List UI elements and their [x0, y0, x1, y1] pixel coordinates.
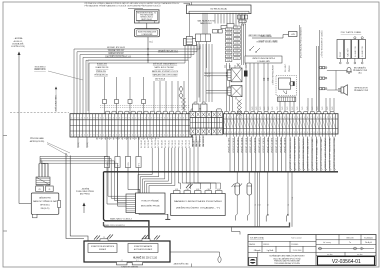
svg-text:SV 2 B-60: SV 2 B-60 [145, 140, 147, 148]
svg-text:6: 6 [151, 135, 152, 137]
svg-text:KABEL NTOL VO-N317-3: KABEL NTOL VO-N317-3 [104, 224, 125, 227]
svg-text:BD RELEJ (M) (B): BD RELEJ (M) (B) [211, 8, 228, 10]
svg-text:SV 5 B-44: SV 5 B-44 [182, 140, 184, 148]
svg-text:4 B2: 4 B2 [186, 189, 189, 191]
svg-text:7: 7 [90, 117, 91, 119]
hlavic cell right [128, 244, 158, 253]
connector box pins [185, 39, 187, 46]
wire pair right drop [316, 46, 318, 111]
svg-text:ANTÉNY(VODIČE): ANTÉNY(VODIČE) [30, 140, 45, 143]
leader privodni b [47, 144, 68, 156]
svg-text:POJI. TLAČÍTK. 1 PANEL: POJI. TLAČÍTK. 1 PANEL [341, 31, 362, 34]
svg-text:0: 0 [132, 135, 133, 137]
svg-text:SV 1 B-92: SV 1 B-92 [179, 140, 181, 148]
svg-text:21.10. 2000: 21.10. 2000 [293, 250, 302, 252]
small box cluster b [196, 34, 211, 42]
wires enclosure to lower cable hooks [254, 172, 256, 227]
wires under horn [279, 101, 281, 111]
wire bell left [328, 70, 348, 72]
horn relay contact bits [283, 91, 285, 94]
arrow symbol A2 [179, 93, 183, 99]
svg-text:6: 6 [274, 117, 275, 119]
svg-text:7: 7 [186, 117, 187, 119]
relay K2 input wires [206, 90, 228, 92]
note corner wire [184, 2, 190, 4]
logo mark [250, 259, 256, 264]
svg-text:VODIČ REZERVA KOSTRA: VODIČ REZERVA KOSTRA [333, 137, 336, 169]
svg-text:(N-15): (N-15) [78, 142, 80, 147]
connector pair P2 [320, 77, 322, 79]
wires stacks to strip [226, 63, 228, 111]
svg-text:NEVIDOMÉHO PPN 286: NEVIDOMÉHO PPN 286 [141, 205, 160, 208]
revision marks line [318, 248, 374, 250]
svg-text:PŘÍŠNÍ ZBV: PŘÍŠNÍ ZBV [96, 70, 107, 73]
svg-text:VODIČ 5 +24V OVLÁDÁNÍ: VODIČ 5 +24V OVLÁDÁNÍ [324, 137, 327, 169]
wire antenna feeder to box [19, 203, 31, 205]
svg-text:PŘENOSU DAT PRO NEVIDOMÉ: PŘENOSU DAT PRO NEVIDOMÉ [274, 260, 301, 263]
svg-text:7: 7 [186, 135, 187, 137]
BD relej inner shelf [189, 10, 249, 12]
box U1 inner [136, 11, 157, 20]
small box cluster d [227, 24, 234, 29]
frame fold tick left low [3, 230, 7, 232]
lacing above K1 [237, 63, 240, 67]
wire bends bundle to pins [39, 156, 40, 177]
svg-text:NÁPIS. BUS V ČELNÍM: NÁPIS. BUS V ČELNÍM [154, 66, 174, 69]
socket feed boxes [193, 104, 200, 112]
svg-text:SV 9 B-78: SV 9 B-78 [165, 140, 167, 148]
svg-text:1 01: 1 01 [227, 29, 230, 31]
switch S2 [256, 48, 260, 52]
svg-text:1 02: 1 02 [227, 33, 230, 35]
svg-text:5: 5 [180, 117, 181, 119]
svg-text:4: 4 [81, 135, 82, 137]
dashed relay outline [276, 75, 297, 95]
dashed link line 2 [100, 107, 190, 109]
svg-text:hoř. osnovy: hoř. osnovy [323, 242, 331, 244]
hlavic top tab B [142, 239, 150, 241]
svg-text:6: 6 [241, 117, 242, 119]
svg-text:BS 1/2 B: BS 1/2 B [347, 237, 355, 239]
relay bottom wires [232, 97, 234, 111]
wire hlavic right [170, 252, 220, 256]
svg-text:0: 0 [320, 117, 321, 119]
svg-text:1: 1 [167, 117, 168, 119]
svg-text:AL-300 č.1: AL-300 č.1 [14, 40, 23, 43]
svg-text:5: 5 [271, 117, 272, 119]
svg-text:5: 5 [304, 132, 305, 134]
relay K1 with cross [231, 68, 242, 82]
svg-text:9: 9 [129, 117, 130, 119]
svg-text:4: 4 [145, 135, 146, 137]
svg-text:6: 6 [119, 135, 120, 137]
box napajeci jednotka [171, 194, 226, 216]
antenna T symbol [167, 214, 169, 219]
svg-text:4: 4 [81, 117, 82, 119]
drawing number box [318, 257, 375, 266]
svg-text:VODIČ 2 KOSTRA NAPÁJENÍ: VODIČ 2 KOSTRA NAPÁJENÍ [302, 138, 305, 170]
svg-text:RADIOVÝ PŘENOS DAT: RADIOVÝ PŘENOS DAT [33, 200, 57, 203]
svg-text:6: 6 [274, 132, 275, 134]
svg-text:TROLEJBUS-ŠKODA, VP PLZEŇ: TROLEJBUS-ŠKODA, VP PLZEŇ [274, 262, 300, 265]
relay socket bumps [191, 109, 196, 112]
svg-text:8: 8 [158, 117, 159, 119]
svg-text:1: 1 [258, 117, 259, 119]
svg-text:1: 1 [167, 135, 168, 137]
svg-text:VODIČ 6 NF REZERVA: VODIČ 6 NF REZERVA [329, 137, 332, 170]
junction dot U2 [147, 48, 148, 49]
svg-text:2 3: 2 3 [103, 237, 105, 239]
svg-text:3: 3 [78, 135, 79, 137]
svg-text:5: 5 [84, 135, 85, 137]
lamp symbol right of hlavic [218, 257, 221, 263]
svg-text:1: 1 [225, 132, 226, 134]
wire pair cluster feed [198, 42, 200, 98]
svg-text:0: 0 [164, 117, 165, 119]
svg-text:a 15: a 15 [207, 76, 210, 78]
svg-text:6: 6 [241, 132, 242, 134]
switch S1 [250, 46, 254, 50]
svg-text:1: 1 [225, 117, 226, 119]
wires right short drops to strip [307, 98, 309, 111]
socket box left [186, 37, 192, 45]
svg-text:6: 6 [183, 117, 184, 119]
svg-text:3: 3 [110, 117, 111, 119]
svg-text:6: 6 [151, 117, 152, 119]
terminal strip X1 connector bumps [106, 111, 110, 114]
dark slug right of K1 [244, 71, 248, 77]
svg-text:ZBV KUDLA: ZBV KUDLA [155, 77, 166, 80]
socket block bottom tags [192, 135, 194, 147]
svg-text:KOSTŘE VOZU): KOSTŘE VOZU) [11, 45, 25, 48]
svg-text:0: 0 [254, 117, 255, 119]
dashed link line 1 [100, 105, 190, 107]
hlavic cell left [88, 244, 117, 253]
svg-text:V1-03564-01: V1-03564-01 [364, 237, 373, 239]
svg-text:(VODIVA SVĚ.: (VODIVA SVĚ. [12, 42, 24, 45]
contact stack column A [225, 28, 232, 31]
U1 bottom shelf [136, 20, 157, 22]
svg-text:Tvoří s osnově: Tvoří s osnově [291, 238, 302, 240]
svg-text:9: 9 [97, 135, 98, 137]
wires tag band into enclosure [138, 148, 152, 193]
svg-text:4: 4 [113, 135, 114, 137]
svg-text:VODIČ 4 NF SIGNÁL PRAVÝ: VODIČ 4 NF SIGNÁL PRAVÝ [315, 137, 318, 169]
svg-text:MODRÁ 1 B74 100-W: MODRÁ 1 B74 100-W [107, 46, 125, 49]
terminal strip X2 right block [223, 114, 338, 134]
svg-text:5: 5 [116, 117, 117, 119]
svg-text:ZELENÁ 2 B74-101: ZELENÁ 2 B74-101 [108, 49, 124, 52]
svg-text:VODIČ 1 KOSTRA NAPÁJENÍ: VODIČ 1 KOSTRA NAPÁJENÍ [293, 138, 296, 170]
svg-text:(REŽIM RUČNÍHO OVLÁDÁNÍ - 'Y'): (REŽIM RUČNÍHO OVLÁDÁNÍ - 'Y') [176, 207, 221, 210]
leader privodni a [47, 143, 70, 154]
svg-text:0: 0 [100, 135, 101, 137]
wire plus24 feed [252, 35, 289, 39]
slash marks mic feed [232, 184, 235, 188]
cable antenna twin wire B [70, 156, 88, 242]
svg-text:3: 3 [142, 135, 143, 137]
box povelovy prijimac [136, 193, 166, 214]
wires strip to bus right with tags [289, 137, 291, 171]
svg-text:3: 3 [78, 117, 79, 119]
svg-text:VODIČ 33 NF4: VODIČ 33 NF4 [241, 138, 244, 153]
svg-text:(Bz): (Bz) [358, 73, 362, 75]
svg-text:(N-15): (N-15) [87, 142, 89, 147]
svg-text:4: 4 [113, 117, 114, 119]
svg-text:2: 2 [170, 117, 171, 119]
box zapnuto label [245, 56, 282, 63]
svg-text:7: 7 [154, 117, 155, 119]
wire bundle nested corners left [74, 46, 200, 114]
svg-text:SV 9 B-47: SV 9 B-47 [158, 140, 160, 148]
svg-text:11: 11 [260, 204, 262, 206]
box U2 elektronika outer [135, 29, 160, 37]
connector pair P1 [320, 67, 322, 69]
wires bundle into radio box [38, 164, 40, 178]
svg-text:4: 4 [145, 117, 146, 119]
svg-text:SV 2 B-18: SV 2 B-18 [151, 140, 153, 148]
note underline [128, 7, 143, 9]
wire pojistka drop [299, 25, 301, 111]
svg-text:2 05: 2 05 [235, 43, 238, 45]
svg-text:VODIČ 4 KOSTRA SIGNÁL: VODIČ 4 KOSTRA SIGNÁL [320, 138, 323, 169]
fuse boxes row [103, 100, 107, 104]
svg-text:3: 3 [174, 135, 175, 137]
horn relay bell circle [290, 81, 295, 86]
svg-text:9: 9 [129, 135, 130, 137]
svg-text:2: 2 [170, 135, 171, 137]
svg-text:6: 6 [87, 117, 88, 119]
svg-text:KABEL NAVIG. VO-N316-3: KABEL NAVIG. VO-N316-3 [110, 218, 132, 221]
svg-text:7: 7 [90, 135, 91, 137]
svg-text:11: 11 [257, 204, 259, 206]
connector box bundle right [184, 39, 197, 46]
svg-text:SV 1 B-61: SV 1 B-61 [155, 140, 157, 148]
fuse panel circles [354, 37, 356, 39]
svg-text:0: 0 [254, 132, 255, 134]
svg-text:HNĚDÁ 3 B74-102: HNĚDÁ 3 B74-102 [108, 52, 123, 55]
wires to fuses F-left [104, 77, 106, 114]
box HLAVIC main [84, 241, 170, 262]
cable NTOL run [104, 222, 290, 227]
svg-text:0: 0 [320, 132, 321, 134]
svg-text:3: 3 [174, 117, 175, 119]
svg-text:5: 5 [304, 117, 305, 119]
terminal strip X1 left block [70, 114, 192, 137]
svg-text:5: 5 [116, 135, 117, 137]
svg-text:1: 1 [71, 117, 72, 119]
svg-text:SV 3 B-23: SV 3 B-23 [172, 140, 174, 148]
svg-text:7: 7 [122, 117, 123, 119]
svg-text:J.Boyek: J.Boyek [253, 250, 260, 252]
svg-text:POJIST: POJIST [340, 52, 342, 57]
box U2 inner [136, 30, 158, 36]
svg-text:4 B4: 4 B4 [207, 189, 210, 191]
wire vetev drop [319, 30, 321, 111]
svg-text:NÁPIS MFL STUPÍNKY L/VO/TU: NÁPIS MFL STUPÍNKY L/VO/TU [152, 70, 179, 73]
svg-text:1: 1 [291, 117, 292, 119]
svg-text:BEL NAVÁDĚCÍ: BEL NAVÁDĚCÍ [354, 67, 367, 70]
wires strip to enclosure center [229, 137, 231, 172]
box BD relej [187, 5, 252, 14]
terminal strip X2 hatch [223, 119, 226, 129]
fuse panel bottom pins [339, 59, 341, 63]
svg-text:2: 2 [74, 135, 75, 137]
dashed centerline [10, 112, 69, 114]
svg-text:2 04: 2 04 [235, 39, 238, 41]
terminal strip X2 bottom stubs [226, 134, 228, 137]
wire cable leader [55, 88, 57, 112]
oval connector below relay [239, 20, 247, 23]
wire speaker left [328, 89, 341, 91]
slash marks napajeci feed [186, 184, 190, 188]
cable slash marks 4 [154, 236, 158, 240]
svg-text:NAPÁJENÍ ČÍM DOPLŇOVÁNÍ: NAPÁJENÍ ČÍM DOPLŇOVÁNÍ [153, 74, 178, 77]
svg-text:POVELOVÝ PŘIJÍMAČ: POVELOVÝ PŘIJÍMAČ [141, 200, 159, 203]
svg-text:0: 0 [287, 117, 288, 119]
svg-text:SV 1 B-38: SV 1 B-38 [162, 140, 164, 148]
svg-text:RM (40-75): RM (40-75) [41, 208, 50, 210]
svg-text:SV 8 B-29: SV 8 B-29 [148, 140, 150, 148]
svg-text:5: 5 [84, 117, 85, 119]
svg-text:2 01: 2 01 [235, 27, 238, 29]
wire bridge vertical [335, 71, 337, 91]
svg-text:4: 4 [177, 117, 178, 119]
svg-text:2: 2 [106, 135, 107, 137]
svg-text:VUT ASP DIGITAL: VUT ASP DIGITAL [250, 237, 264, 240]
radio box bottom connector [33, 214, 38, 218]
svg-text:ZADNÍ SVĚTLO AS: ZADNÍ SVĚTLO AS [174, 263, 190, 266]
svg-text:1 05: 1 05 [227, 45, 230, 47]
hlavic bottom tab 1 [117, 262, 128, 265]
small box cluster c [221, 26, 227, 29]
connector block radio pins [36, 177, 50, 185]
antenna arrow head [18, 52, 21, 56]
wires kontakt to strip [245, 63, 247, 111]
svg-text:1 09: 1 09 [227, 60, 230, 62]
svg-text:ČSD SVĚTLOVODU ŘIDIČ V15: ČSD SVĚTLOVODU ŘIDIČ V15 [105, 55, 131, 58]
svg-text:– ANTÉNA: – ANTÉNA [81, 188, 90, 191]
svg-text:1: 1 [135, 117, 136, 119]
wire U2 drop [147, 37, 149, 63]
svg-text:6: 6 [183, 135, 184, 137]
horn terminal hatch [278, 97, 280, 101]
bell symbol BZ [347, 68, 351, 72]
svg-text:BEZP. 650-01: BEZP. 650-01 [142, 19, 152, 21]
svg-text:8: 8 [94, 135, 95, 137]
svg-text:L.Kn 30: L.Kn 30 [205, 73, 210, 75]
hlavic top tab A [100, 239, 108, 241]
leader kabel brou [48, 71, 83, 80]
svg-text:ZB: ZB [39, 189, 41, 191]
svg-text:4 1: 4 1 [121, 260, 123, 262]
svg-text:ZBRANÉ PAZY-AS VID-1: ZBRANÉ PAZY-AS VID-1 [158, 49, 178, 52]
svg-text:2 02: 2 02 [235, 31, 238, 33]
svg-text:4 B5: 4 B5 [217, 189, 220, 191]
svg-text:5: 5 [238, 117, 239, 119]
antenna povel wire [83, 204, 85, 213]
svg-text:0: 0 [100, 117, 101, 119]
microphone components M1 M2 [236, 172, 238, 183]
relay socket block K-sockets [190, 111, 195, 117]
harness area outline [88, 60, 189, 111]
stub wires below strip far-left [77, 137, 79, 148]
svg-text:1 03: 1 03 [227, 37, 230, 39]
speaker symbol RP [341, 87, 344, 93]
svg-text:PŘIJÍMAČE TÓNŮ: PŘIJÍMAČE TÓNŮ [353, 69, 368, 72]
svg-text:11: 11 [255, 204, 257, 206]
cable slash marks 3 [142, 235, 146, 239]
svg-text:(POJISTKA 30 A) PŘÍVOD NAPÁJEN: (POJISTKA 30 A) PŘÍVOD NAPÁJENÍ [299, 27, 302, 58]
svg-text:SV 5 B-47: SV 5 B-47 [189, 140, 191, 148]
svg-text:1 08: 1 08 [227, 56, 230, 58]
svg-text:2 09: 2 09 [235, 58, 238, 60]
small box cluster a [213, 30, 218, 34]
svg-text:4 B3: 4 B3 [196, 189, 199, 191]
svg-text:2 03: 2 03 [235, 35, 238, 37]
wires beside contact stacks [241, 24, 243, 65]
svg-text:PŘIJÍMAČE TÓNŮ: PŘIJÍMAČE TÓNŮ [354, 89, 369, 92]
fuse panel F1-F4 [337, 40, 344, 59]
svg-text:NF 2: NF 2 [139, 163, 141, 167]
svg-text:HLAVIČ BS 200 Z 1110: HLAVIČ BS 200 Z 1110 [133, 257, 158, 260]
wire elektronika junctions [147, 54, 148, 55]
svg-text:SV 6 B-45: SV 6 B-45 [168, 140, 170, 148]
svg-text:SVOD BROU: SVOD BROU [35, 66, 46, 68]
svg-text:1: 1 [103, 117, 104, 119]
svg-text:VODIČ 1 +24V NAPÁJENÍ BS: VODIČ 1 +24V NAPÁJENÍ BS [289, 137, 292, 169]
napajeci top connectors [174, 191, 181, 194]
wire bundle radio-to-povelovy [40, 156, 126, 196]
cable antenna twin wire A [66, 153, 84, 239]
wires strip to povelovy with boxed tags [107, 137, 126, 204]
hlavic bottom tab 2 [132, 262, 143, 265]
wire drop right of enclosure [291, 172, 293, 227]
svg-text:1 04: 1 04 [227, 41, 230, 43]
relay K1 input wires [204, 72, 228, 74]
svg-text:7: 7 [122, 135, 123, 137]
socket feed bumps [194, 102, 197, 104]
svg-text:1: 1 [291, 132, 292, 134]
svg-text:4 5: 4 5 [145, 237, 147, 239]
svg-text:8: 8 [158, 135, 159, 137]
svg-text:7: 7 [154, 135, 155, 137]
logo box [249, 257, 257, 265]
enclosure top thick line [104, 171, 339, 173]
frame fold tick top [191, 2, 193, 6]
svg-text:3: 3 [142, 117, 143, 119]
svg-text:BLANK ZBV ZB: BLANK ZBV ZB [96, 66, 109, 69]
svg-text:POVELOVÉHO PŘIJÍM.: POVELOVÉHO PŘIJÍM. [76, 190, 95, 193]
svg-text:KRESLIL: KRESLIL [263, 244, 269, 246]
relay K2 with cross [231, 86, 242, 97]
svg-text:NAPÁJECÍ JEDNOTKA BS ZVUKOVÉHO: NAPÁJECÍ JEDNOTKA BS ZVUKOVÉHO [174, 200, 223, 203]
svg-text:6: 6 [307, 117, 308, 119]
svg-text:Lg.Svlk: Lg.Svlk [267, 250, 274, 252]
cable lacing chain left [182, 98, 186, 102]
svg-text:SCHÉMA ZAPOJENÍ PANELŮ ELEKTRO: SCHÉMA ZAPOJENÍ PANELŮ ELEKTRONIKY [269, 255, 305, 258]
svg-text:0: 0 [164, 135, 165, 137]
svg-text:ZAŘÍZENÍ PRO: ZAŘÍZENÍ PRO [39, 197, 52, 200]
svg-text:2: 2 [138, 135, 139, 137]
svg-text:9: 9 [161, 117, 162, 119]
connector 3-gang below relay [238, 15, 241, 19]
cable slash marks 1 [94, 236, 98, 240]
svg-text:5: 5 [238, 132, 239, 134]
svg-text:1: 1 [135, 135, 136, 137]
svg-text:+ VĚTEV NEVIDOMÝCH VODIČŮ: + VĚTEV NEVIDOMÝCH VODIČŮ [320, 30, 323, 58]
svg-text:6: 6 [87, 135, 88, 137]
